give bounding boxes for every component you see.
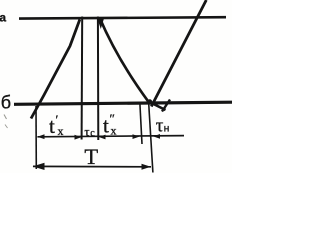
svg-text:н: н bbox=[164, 123, 170, 134]
svg-text:τ: τ bbox=[84, 124, 89, 139]
svg-text:τ: τ bbox=[156, 116, 164, 137]
svg-text:T: T bbox=[84, 144, 98, 169]
svg-text:t: t bbox=[49, 114, 55, 138]
svg-text:б: б bbox=[1, 93, 11, 113]
svg-text:x: x bbox=[111, 124, 117, 138]
svg-text:c: c bbox=[90, 128, 95, 139]
svg-text:a: a bbox=[0, 10, 6, 24]
svg-text:t: t bbox=[103, 114, 109, 138]
svg-text:x: x bbox=[58, 124, 64, 138]
